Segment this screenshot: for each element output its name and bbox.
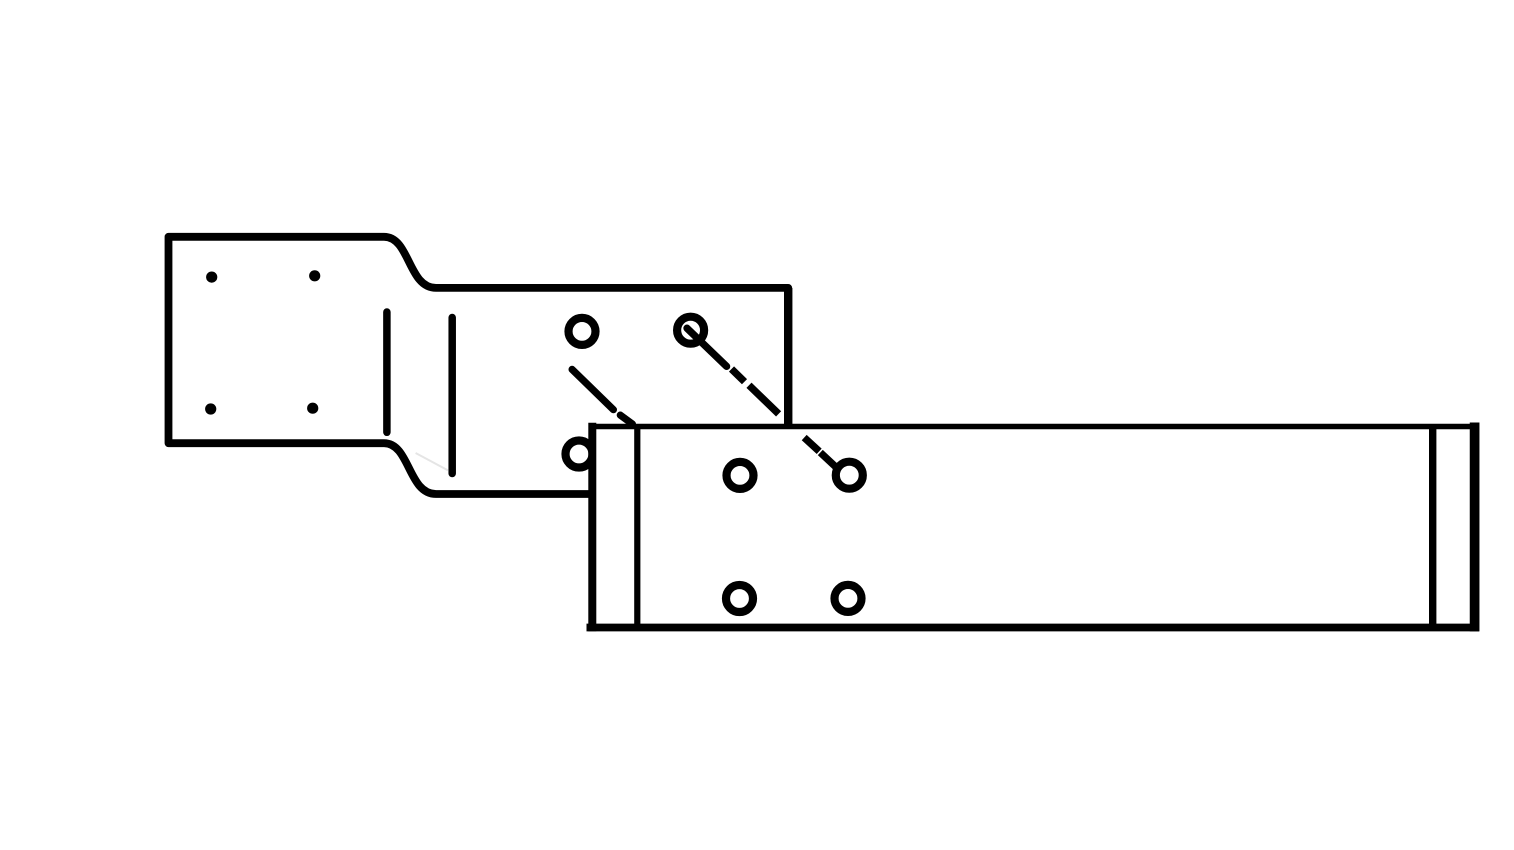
alignment dash line 2 segment c <box>749 385 779 414</box>
plate dot bottom-right <box>307 403 318 414</box>
alignment dash line 1 segment a <box>572 369 613 409</box>
plate dot bottom-left <box>205 403 216 414</box>
alignment dash line 1 segment b <box>620 415 632 424</box>
bend line left <box>383 312 391 432</box>
plate dot top-left <box>206 272 217 283</box>
beam left edge <box>588 423 596 632</box>
beam hole A <box>727 462 754 489</box>
bracket outline (Z-offset mounting bracket) <box>169 237 789 494</box>
beam inner right line <box>1429 427 1436 628</box>
beam hole B <box>836 462 863 489</box>
bracket hole 2 <box>677 317 704 344</box>
beam hole C <box>726 585 753 612</box>
alignment dash line 2 segment a <box>687 328 727 366</box>
alignment dash line 2 segment e <box>820 453 838 470</box>
beam right edge <box>1470 423 1480 632</box>
beam top edge <box>589 424 1480 429</box>
faint stray sketch line <box>416 453 448 470</box>
beam hole D <box>835 585 862 612</box>
alignment dash line 2 segment b <box>732 369 745 382</box>
bracket right edge (thicker overdraw) <box>784 288 792 431</box>
bend line right <box>448 318 456 474</box>
bracket hole 3 (partly hidden behind beam) <box>566 441 593 468</box>
beam fill (covers bracket behind it) <box>592 427 1474 627</box>
beam inner left line <box>634 427 640 628</box>
beam bottom edge <box>587 624 1480 632</box>
bracket hole 1 <box>569 318 596 345</box>
alignment dash line 2 segment d <box>804 438 819 452</box>
plate dot top-right <box>309 270 320 281</box>
